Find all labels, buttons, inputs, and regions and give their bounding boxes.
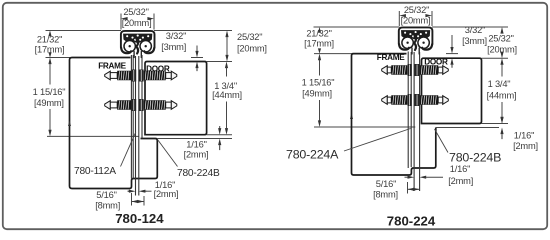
svg-text:[17mm]: [17mm]: [304, 38, 334, 48]
wire frame leaf channel inner P2: [410, 52, 412, 167]
svg-text:780-224A: 780-224A: [286, 148, 339, 162]
screw head door top P1: [139, 70, 144, 82]
wire frame-top extension P2: [314, 53, 354, 55]
svg-text:780-224B: 780-224B: [177, 168, 220, 179]
svg-text:1/16": 1/16": [514, 131, 534, 141]
screw door bottom P1: [144, 100, 177, 110]
dimension 1 15/16 49mm P1: [48, 58, 51, 65]
wire channel line b P1: [138, 56, 140, 196]
wire channel line b P2: [419, 52, 421, 191]
screw head frame bottom P1: [131, 99, 136, 111]
svg-text:25/32": 25/32": [488, 33, 513, 43]
screw door bottom P2: [420, 95, 449, 105]
wire cap-top extension left P1: [46, 30, 122, 32]
screw head frame bottom P2: [408, 94, 412, 106]
svg-text:[49mm]: [49mm]: [34, 98, 64, 108]
svg-text:FRAME: FRAME: [98, 61, 126, 70]
dimension 25/32 20mm top P1: [120, 14, 122, 30]
hinge cap cross-section P2: [399, 27, 433, 54]
screw frame bottom P2: [382, 95, 408, 105]
wire step-top extension P1: [157, 138, 232, 140]
dimension 25/32 20mm right P1: [225, 31, 228, 38]
svg-text:780-124: 780-124: [115, 211, 164, 226]
svg-text:[8mm]: [8mm]: [95, 200, 120, 210]
svg-text:FRAME: FRAME: [377, 53, 405, 62]
wire cap-top extension right P1: [154, 30, 232, 32]
dimension 21/32 17mm P2: [318, 27, 321, 33]
svg-text:1 3/4": 1 3/4": [488, 79, 511, 89]
svg-text:3/32": 3/32": [166, 31, 186, 41]
dimension 1 15/16 49mm P2: [318, 54, 321, 61]
wire door leaf channel P1: [141, 55, 143, 139]
wire channel line a P1: [135, 56, 137, 196]
dimension 25/32 20mm top P2: [398, 11, 400, 26]
wire frame face line P1: [130, 55, 132, 179]
dimension 5/16 8mm bottom P1: [131, 193, 133, 206]
wire frame leaf end line P1: [47, 135, 139, 137]
wire door-top extension P2: [482, 57, 509, 59]
svg-text:1 15/16": 1 15/16": [33, 87, 66, 97]
svg-text:780-112A: 780-112A: [74, 166, 116, 177]
wire frame leaf channel P2: [407, 52, 409, 169]
door block outline P2: [422, 58, 482, 123]
frame block outline P2: [352, 54, 436, 175]
svg-text:25/32": 25/32": [123, 7, 148, 17]
hinge cap cross-section P1: [121, 31, 155, 58]
screw frame top P1: [105, 71, 132, 81]
svg-text:5/16": 5/16": [376, 179, 396, 189]
svg-text:[3mm]: [3mm]: [462, 36, 487, 46]
dimension 1/16 2mm right P2: [501, 116, 503, 117]
svg-text:[2mm]: [2mm]: [154, 189, 179, 199]
svg-text:[44mm]: [44mm]: [212, 90, 242, 100]
wire cap-top extension right P2: [432, 26, 508, 28]
svg-text:780-224B: 780-224B: [449, 151, 501, 165]
svg-text:5/16": 5/16": [96, 190, 116, 200]
svg-text:[2mm]: [2mm]: [513, 141, 538, 151]
dimension 1/16 2mm bottom P2: [405, 176, 408, 178]
svg-text:21/32": 21/32": [37, 35, 62, 45]
wire frame leaf channel P1: [132, 55, 134, 179]
svg-text:1/16": 1/16": [450, 164, 470, 174]
screw head door bottom P1: [139, 99, 144, 111]
svg-text:21/32": 21/32": [306, 28, 331, 38]
wire channel line a P2: [413, 52, 415, 191]
screw door top P1: [144, 71, 177, 81]
wire door-bottom extension P1: [207, 134, 232, 136]
wire cap-top extension left P2: [314, 26, 400, 28]
svg-text:[3mm]: [3mm]: [161, 42, 186, 52]
screw head door bottom P2: [415, 94, 420, 106]
wire door-top extension P1: [207, 61, 232, 63]
screw head frame top P2: [408, 64, 412, 76]
dimension 1/16 2mm bottom P1: [128, 190, 130, 192]
dimension 1 3/4 44mm P2: [500, 58, 503, 65]
screw head frame top P1: [131, 70, 136, 82]
svg-text:DOOR: DOOR: [424, 57, 448, 66]
wire step-top extension P2: [436, 127, 499, 129]
svg-text:780-224: 780-224: [387, 213, 436, 228]
dimension 5/16 8mm bottom P2: [407, 182, 409, 194]
svg-text:[20mm]: [20mm]: [401, 15, 431, 25]
svg-text:[2mm]: [2mm]: [184, 150, 209, 160]
svg-text:[49mm]: [49mm]: [302, 89, 332, 99]
svg-text:1/16": 1/16": [186, 139, 206, 149]
svg-text:25/32": 25/32": [404, 5, 429, 15]
svg-text:25/32": 25/32": [237, 32, 262, 42]
svg-text:3/32": 3/32": [465, 25, 485, 35]
frame block outline P1: [70, 58, 158, 189]
svg-text:[8mm]: [8mm]: [373, 189, 398, 199]
screw door top P2: [420, 65, 449, 75]
wire frame-top extension P1: [46, 57, 72, 59]
wire frame leaf end line P2: [314, 126, 415, 128]
screw head door top P2: [415, 64, 420, 76]
arrow marker on frame edge P2: [350, 114, 353, 120]
svg-text:[2mm]: [2mm]: [448, 176, 473, 186]
dimension 21/32 17mm P1: [48, 31, 51, 37]
svg-text:[20mm]: [20mm]: [237, 43, 267, 53]
dimension 1/16 2mm right P1: [219, 126, 221, 129]
door block outline P1: [145, 62, 207, 135]
screw frame top P2: [382, 65, 408, 75]
screw frame bottom P1: [105, 100, 132, 110]
wire door-bottom extension P2: [482, 123, 509, 125]
dimension 1 3/4 44mm P1: [225, 62, 228, 69]
svg-text:[20mm]: [20mm]: [122, 18, 152, 28]
svg-text:1 15/16": 1 15/16": [302, 78, 335, 88]
arrow marker on frame edge P1: [68, 121, 71, 127]
svg-text:[44mm]: [44mm]: [487, 90, 517, 100]
dimension 25/32 20mm right P2: [500, 27, 503, 34]
